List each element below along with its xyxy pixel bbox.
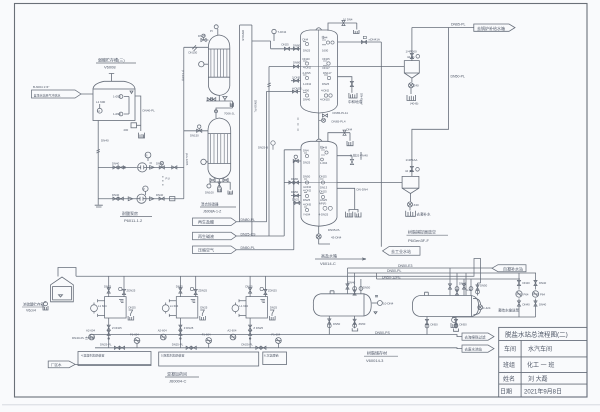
svg-text:AN25: AN25 — [320, 198, 327, 202]
svg-text:DN40: DN40 — [523, 303, 531, 307]
svg-text:F1-604: F1-604 — [202, 333, 211, 337]
svg-text:DN40: DN40 — [156, 162, 164, 166]
svg-text:DN25: DN25 — [303, 161, 311, 165]
svg-text:DN-DN4: DN-DN4 — [357, 188, 369, 192]
svg-text:DN4: DN4 — [347, 128, 353, 132]
svg-text:DN25: DN25 — [292, 198, 300, 202]
svg-text:DN40: DN40 — [303, 57, 311, 61]
svg-text:DN25-PL: DN25-PL — [100, 343, 112, 347]
svg-text:DN25: DN25 — [303, 49, 311, 53]
svg-text:ZDN25: ZDN25 — [268, 289, 277, 293]
svg-text:J60004-C: J60004-C — [169, 379, 186, 384]
svg-text:DN65-PL4: DN65-PL4 — [332, 119, 346, 123]
svg-text:班组: 班组 — [503, 361, 515, 369]
svg-text:DN40: DN40 — [523, 281, 531, 285]
svg-text:去锅炉补给水箱: 去锅炉补给水箱 — [477, 25, 505, 31]
svg-text:DN150: DN150 — [189, 51, 198, 55]
svg-text:Z DN25: Z DN25 — [112, 326, 122, 330]
svg-text:ZDN25: ZDN25 — [198, 289, 207, 293]
svg-text:4-DN5: 4-DN5 — [303, 203, 312, 207]
svg-text:pH+1245: pH+1245 — [185, 153, 189, 166]
svg-text:排#4: 排#4 — [322, 36, 328, 40]
svg-text:PI: PI — [210, 29, 213, 33]
svg-text:DN40: DN40 — [101, 139, 109, 143]
svg-text:1-604: 1-604 — [320, 161, 328, 165]
svg-text:B-6004 1'/4": B-6004 1'/4" — [33, 85, 49, 89]
svg-text:DN13: DN13 — [320, 186, 328, 190]
svg-text:nDN41A: nDN41A — [369, 38, 380, 42]
svg-text:1-Ø10: 1-Ø10 — [113, 95, 121, 99]
svg-text:凝结水输送泵: 凝结水输送泵 — [498, 308, 519, 313]
svg-text:Z DN25: Z DN25 — [184, 326, 194, 330]
svg-text:脱盐水站总流程图(二): 脱盐水站总流程图(二) — [505, 330, 568, 339]
svg-text:7-DN4: 7-DN4 — [278, 30, 287, 34]
svg-text:43-DN4: 43-DN4 — [331, 235, 342, 239]
svg-text:车间: 车间 — [504, 345, 516, 353]
svg-text:10 DN4: 10 DN4 — [343, 18, 353, 22]
svg-text:DN40: DN40 — [112, 162, 120, 166]
svg-text:DN50-PL: DN50-PL — [241, 246, 255, 250]
svg-text:排#-B: 排#-B — [320, 146, 327, 150]
svg-text:1-Ø10: 1-Ø10 — [113, 112, 121, 116]
svg-text:DN40: DN40 — [112, 193, 120, 197]
svg-text:PI: PI — [145, 153, 148, 157]
svg-text:DN25: DN25 — [322, 82, 330, 86]
svg-text:Z DN25: Z DN25 — [253, 326, 263, 330]
svg-text:2-DN5: 2-DN5 — [303, 71, 312, 75]
svg-text:DN50: DN50 — [363, 285, 371, 289]
svg-text:树脂捕捉器放空: 树脂捕捉器放空 — [408, 229, 436, 235]
svg-text:1/4P000: 1/4P000 — [406, 50, 418, 54]
svg-text:DN25: DN25 — [303, 198, 311, 202]
svg-text:O 排25 DN40: O 排25 DN40 — [350, 153, 368, 158]
svg-text:Y400: Y400 — [303, 88, 310, 92]
svg-text:厂区水: 厂区水 — [51, 362, 62, 367]
svg-text:自凝补水站: 自凝补水站 — [503, 266, 523, 272]
svg-text:DN50-B: DN50-B — [241, 30, 245, 41]
svg-text:5.阻垢剂加药装置: 5.阻垢剂加药装置 — [161, 353, 185, 358]
svg-text:DN65-PL: DN65-PL — [451, 23, 465, 27]
svg-text:DN40: DN40 — [348, 281, 356, 285]
svg-text:Z40: Z40 — [414, 203, 420, 207]
svg-text:化工 一 班: 化工 一 班 — [527, 361, 554, 369]
svg-text:DN40-PL: DN40-PL — [143, 109, 156, 113]
svg-text:2-DN5: 2-DN5 — [292, 75, 301, 79]
svg-text:44 (B): 44 (B) — [405, 169, 413, 173]
svg-text:DN4: DN4 — [303, 149, 309, 153]
svg-text:LI: LI — [98, 109, 101, 113]
svg-text:4-DN25: 4-DN25 — [292, 86, 302, 90]
svg-text:DN50-E3: DN50-E3 — [398, 264, 412, 268]
svg-text:去工业水站: 去工业水站 — [391, 248, 411, 254]
svg-text:DN150: DN150 — [190, 134, 199, 138]
svg-text:P64: P64 — [524, 292, 529, 296]
svg-text:DN25-PL: DN25-PL — [172, 343, 184, 347]
svg-text:DN50: DN50 — [291, 190, 299, 194]
svg-text:DN25: DN25 — [245, 285, 253, 289]
svg-text:高盐水箱: 高盐水箱 — [321, 253, 337, 259]
svg-text:DN80: DN80 — [293, 61, 301, 65]
svg-text:6.次氯酸钠: 6.次氯酸钠 — [264, 353, 279, 358]
svg-text:F1-604: F1-604 — [271, 333, 280, 337]
svg-text:V6cn4: V6cn4 — [26, 309, 36, 313]
svg-text:DN25-CS: DN25-CS — [241, 232, 257, 236]
svg-text:再生碱液: 再生碱液 — [198, 233, 214, 239]
svg-text:DN40-PL 去MD4: DN40-PL 去MD4 — [72, 335, 95, 340]
svg-text:44 (F): 44 (F) — [407, 55, 415, 59]
svg-text:ZDN25: ZDN25 — [127, 289, 136, 293]
svg-text:DN25: DN25 — [129, 306, 137, 310]
svg-text:V60014-3: V60014-3 — [366, 358, 384, 363]
svg-text:J6008A-1-Z: J6008A-1-Z — [203, 210, 222, 214]
svg-text:DN50: DN50 — [431, 323, 439, 327]
svg-text:DN40: DN40 — [539, 303, 547, 307]
svg-text:DN50: DN50 — [480, 284, 488, 288]
svg-text:4-DN2: 4-DN2 — [321, 88, 330, 92]
svg-text:DN50: DN50 — [303, 175, 311, 179]
svg-text:DN40: DN40 — [156, 193, 164, 197]
svg-text:4.混凝剂加药装置: 4.混凝剂加药装置 — [81, 353, 105, 358]
svg-text:日期: 日期 — [500, 388, 512, 396]
svg-text:DN25: DN25 — [200, 306, 208, 310]
svg-text:Z40: Z40 — [414, 84, 420, 88]
svg-text:树脂储存材: 树脂储存材 — [367, 350, 387, 356]
svg-text:DN100: DN100 — [205, 191, 214, 195]
svg-text:DN40: DN40 — [459, 282, 467, 286]
svg-text:DN25: DN25 — [320, 189, 328, 193]
svg-text:4-DN25: 4-DN25 — [319, 213, 329, 217]
svg-text:L1 604: L1 604 — [239, 304, 248, 308]
svg-text:DN50-PL: DN50-PL — [451, 75, 465, 79]
svg-text:F1-604: F1-604 — [130, 333, 139, 337]
svg-text:A2-604: A2-604 — [227, 329, 236, 333]
svg-text:DN40: DN40 — [539, 281, 547, 285]
svg-text:Z: Z — [143, 187, 145, 191]
svg-text:2021年9月8日: 2021年9月8日 — [524, 388, 562, 396]
svg-text:DN25: DN25 — [320, 175, 328, 179]
svg-text:P6011-1.2: P6011-1.2 — [124, 218, 143, 223]
svg-text:DN40-W: DN40-W — [360, 93, 364, 105]
svg-text:混合除碳器: 混合除碳器 — [201, 202, 219, 207]
svg-text:DN25: DN25 — [198, 34, 206, 38]
svg-text:4-40: 4-40 — [466, 288, 472, 292]
svg-text:DN80: DN80 — [291, 177, 299, 181]
svg-text:DN25: DN25 — [282, 43, 290, 47]
svg-text:再生盐酸: 再生盐酸 — [198, 219, 214, 225]
svg-text:DN25-PL: DN25-PL — [241, 343, 253, 347]
svg-text:DN50: DN50 — [333, 322, 341, 326]
svg-text:7006-JL: 7006-JL — [224, 112, 235, 116]
svg-text:DN80: DN80 — [293, 44, 301, 48]
svg-text:Y-604: Y-604 — [303, 213, 311, 217]
svg-text:去废水池站: 去废水池站 — [465, 346, 483, 351]
svg-text:1-DN4: 1-DN4 — [303, 82, 312, 86]
svg-text:DN50-PS: DN50-PS — [375, 331, 390, 335]
svg-text:浓硫酸贮存箱: 浓硫酸贮存箱 — [23, 302, 44, 307]
svg-text:10-DN4: 10-DN4 — [383, 302, 394, 306]
svg-text:1/4P2AA: 1/4P2AA — [406, 158, 418, 162]
svg-text:DN50-PL: DN50-PL — [387, 269, 401, 273]
svg-text:L1 604: L1 604 — [170, 304, 179, 308]
svg-text:A2-604: A2-604 — [158, 329, 167, 333]
svg-text:DN50-12PE: DN50-12PE — [382, 275, 401, 279]
svg-text:弱酸贮存槽(三): 弱酸贮存槽(三) — [98, 57, 125, 63]
svg-text:DN17: DN17 — [323, 66, 331, 70]
svg-text:DN117: DN117 — [323, 71, 332, 75]
svg-text:(TI-124): (TI-124) — [181, 70, 185, 81]
svg-text:DN80-PL: DN80-PL — [241, 218, 255, 222]
svg-text:混凝加药间: 混凝加药间 — [167, 371, 187, 377]
svg-text:DN65-PL11: DN65-PL11 — [333, 111, 349, 115]
svg-text:DN4: DN4 — [303, 37, 309, 41]
svg-text:DN25: DN25 — [323, 57, 331, 61]
svg-text:DN25: DN25 — [176, 285, 184, 289]
svg-text:DN25: DN25 — [104, 285, 112, 289]
svg-text:ZN50: ZN50 — [359, 322, 366, 326]
svg-text:去凝补水: 去凝补水 — [417, 212, 431, 217]
svg-text:P6Gen3F-F: P6Gen3F-F — [408, 238, 429, 243]
svg-text:压缩空气: 压缩空气 — [198, 247, 214, 253]
svg-text:4-DN2: 4-DN2 — [303, 66, 312, 70]
svg-text:L1 600: L1 600 — [96, 100, 106, 104]
svg-text:V6014-C: V6014-C — [320, 261, 336, 266]
svg-text:DN50: DN50 — [460, 323, 468, 327]
svg-text:DN65-PL: DN65-PL — [328, 228, 341, 232]
svg-text:水汽车间: 水汽车间 — [528, 345, 552, 353]
svg-text:DN40: DN40 — [303, 98, 311, 102]
svg-text:DN25: DN25 — [270, 306, 278, 310]
svg-text:刘 大磊: 刘 大磊 — [528, 375, 548, 383]
svg-text:C-424: C-424 — [483, 306, 491, 310]
svg-text:L1 604: L1 604 — [98, 304, 107, 308]
svg-text:耐酸泵房: 耐酸泵房 — [122, 210, 138, 216]
svg-text:去海绵铁过滤: 去海绵铁过滤 — [465, 334, 486, 339]
svg-text:DN40: DN40 — [359, 152, 363, 160]
svg-text:自净水站来气冲洗水: 自净水站来气冲洗水 — [34, 93, 61, 98]
svg-text:DN25-B: DN25-B — [258, 146, 268, 150]
svg-text:(40-B): (40-B) — [410, 102, 418, 106]
svg-text:姓名: 姓名 — [503, 375, 515, 383]
svg-text:P.U: P.U — [166, 177, 170, 181]
svg-text:1600: 1600 — [322, 49, 329, 53]
svg-text:200: 200 — [124, 128, 129, 132]
svg-text:4-DN25: 4-DN25 — [320, 98, 330, 102]
svg-text:4-DN2: 4-DN2 — [303, 185, 312, 189]
svg-text:DN50-PL: DN50-PL — [254, 100, 258, 113]
svg-text:V6008: V6008 — [104, 65, 116, 70]
svg-text:A2-604: A2-604 — [86, 329, 95, 333]
svg-text:P64: P64 — [540, 292, 545, 296]
